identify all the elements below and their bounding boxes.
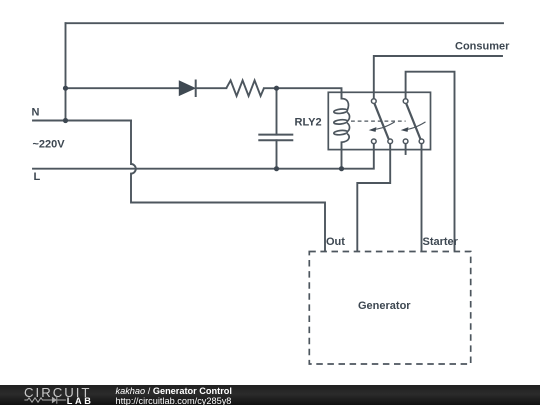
- relay dashed pole link: [351, 120, 406, 122]
- svg-text:Generator: Generator: [358, 300, 411, 312]
- junction N feed / diode branch: [63, 86, 68, 91]
- wire relay sw2 top to starter drop: [406, 72, 455, 250]
- svg-text:Consumer: Consumer: [455, 41, 510, 53]
- relay RLY2 pole 2 throw contact B: [419, 139, 424, 144]
- wire L lead to relay contact: [33, 144, 374, 169]
- svg-text:N: N: [32, 107, 40, 119]
- relay switch 2 blade: [406, 104, 420, 139]
- footer bar: [0, 385, 540, 405]
- resistor: [226, 80, 264, 96]
- svg-text:LAB: LAB: [67, 396, 94, 405]
- generator block dashed box: [309, 252, 470, 365]
- wire diode-to-resistor segment: [196, 87, 227, 89]
- wire relay contact3 open stub: [405, 144, 407, 154]
- relay RLY2 pole 1 throw contact A: [371, 139, 376, 144]
- relay RLY2 body: [328, 92, 430, 149]
- wire coil bottom stub: [341, 142, 343, 168]
- svg-text:~220V: ~220V: [33, 139, 66, 151]
- relay switch 1 blade: [375, 104, 389, 139]
- diode: [179, 80, 195, 98]
- svg-text:Starter: Starter: [423, 236, 459, 248]
- junction L lead / coil bottom: [339, 166, 344, 171]
- capacitor: [258, 135, 293, 141]
- wire capacitor top stub: [276, 88, 278, 134]
- svg-text:L: L: [34, 171, 41, 183]
- wire capacitor bottom stub: [276, 140, 278, 168]
- relay RLY2 pole 2 throw contact A: [403, 139, 408, 144]
- relay RLY2 pole 1 top contact: [371, 99, 376, 104]
- relay RLY2 coil: [334, 92, 350, 142]
- wire relay contact4 to starter: [421, 144, 423, 250]
- relay switch 1 arrow: [369, 122, 395, 132]
- relay RLY2 pole 2 top contact: [403, 99, 408, 104]
- svg-text:Out: Out: [326, 236, 345, 248]
- svg-text:RLY2: RLY2: [295, 116, 322, 128]
- wire consumer lower lead: [374, 56, 502, 99]
- wire top horizontal N feed: [66, 22, 504, 24]
- wire vertical left drop: [65, 23, 67, 120]
- junction N feed / N lead: [63, 118, 68, 123]
- junction L lead / capacitor bottom: [274, 166, 279, 171]
- wire diode branch left segment: [66, 87, 180, 89]
- wire relay contact2 to generator: [357, 144, 390, 250]
- relay switch 2 arrow: [401, 122, 426, 132]
- footer credit text: [116, 387, 232, 407]
- wire resistor-to-relay-coil segment: [264, 88, 342, 98]
- wire vertical from N with hop over L: [131, 121, 325, 251]
- footer logo CIRCUITLAB: [0, 384, 120, 405]
- wire N lead: [33, 120, 131, 122]
- relay RLY2 pole 1 throw contact B: [388, 139, 393, 144]
- junction resistor output / capacitor top: [274, 86, 279, 91]
